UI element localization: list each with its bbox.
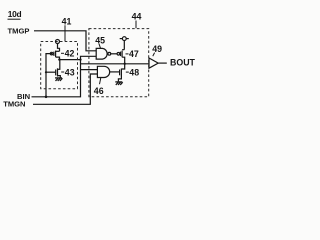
svg-text:41: 41	[62, 16, 72, 26]
svg-text:45: 45	[95, 36, 105, 46]
svg-text:44: 44	[132, 11, 142, 21]
svg-text:49: 49	[152, 44, 162, 54]
svg-text:42: 42	[65, 48, 75, 58]
svg-text:BOUT: BOUT	[170, 58, 196, 68]
svg-text:47: 47	[129, 49, 139, 59]
svg-text:43: 43	[65, 68, 75, 78]
svg-text:TMGP: TMGP	[8, 27, 30, 36]
svg-text:10d: 10d	[8, 9, 22, 19]
svg-text:46: 46	[94, 86, 104, 96]
svg-text:TMGN: TMGN	[3, 100, 25, 109]
svg-text:48: 48	[129, 68, 139, 78]
